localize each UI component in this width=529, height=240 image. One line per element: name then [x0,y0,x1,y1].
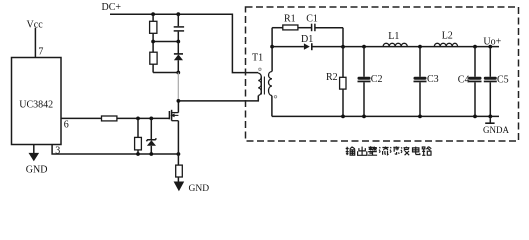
svg-text:Uo+: Uo+ [483,37,501,48]
node junction drain [177,99,181,103]
wire DC+ rail [110,14,258,72]
node junction gate wire at D3 [149,117,153,121]
transistor Q1 MOSFET [169,101,178,154]
wire RC branch right drop [342,28,344,47]
node junction ground rail at R2 [341,115,345,119]
capacitor C5 [484,47,497,117]
svg-text:C3: C3 [427,74,439,85]
transformer T1 secondary winding [269,72,272,96]
svg-text:C2: C2 [371,74,383,85]
svg-text:GND: GND [189,184,210,192]
node junction gate wire at R4 [136,117,140,121]
capacitor C6 (clamp) [174,14,184,41]
transformer T1 primary winding [258,73,261,95]
node junction bottom wire at source [177,152,181,156]
svg-text:D1: D1 [301,34,313,45]
ground (IC GND) [26,145,48,176]
transformer T1 core [260,77,262,95]
svg-text:6: 6 [64,119,69,130]
node junction ground rail at C4 [473,115,477,119]
svg-text:R2: R2 [326,72,338,83]
transformer T1 primary polarity dot [259,68,261,70]
svg-text:R1: R1 [284,14,296,25]
node junction clamp link right [176,40,180,44]
wire pin 6 to gate resistor [61,117,102,119]
node junction on DC+ rail (clamp R column) [151,12,155,16]
svg-text:GND: GND [26,165,48,176]
wire secondary top to D1 node [271,28,273,72]
dashed output box [246,7,519,141]
capacitor C2 [358,47,371,117]
wire drain rail to primary [178,96,258,101]
capacitor C4 [469,47,482,117]
svg-text:7: 7 [38,46,43,57]
diode D3 (gate zener) [146,118,156,154]
ground (source GND) [174,182,210,194]
svg-text:L2: L2 [442,30,453,41]
svg-text:T1: T1 [252,52,263,63]
svg-text:L1: L1 [388,31,399,42]
node junction ground rail at C5 [488,115,492,119]
wire secondary bottom to ground rail [271,96,273,117]
wire clamp link upper [153,41,178,43]
wire pin 3 to source node [52,145,178,155]
node junction clamp link left [151,40,155,44]
svg-text:GNDA: GNDA [483,125,509,135]
wire Vcc to pin 7 [34,28,36,58]
svg-text:DC+: DC+ [102,2,122,13]
inductor L1 [383,43,407,46]
op-amp U1 UC3842 box [12,58,62,145]
wire gate resistor to MOSFET gate [117,117,169,119]
resistor R5 (clamp, upper) [150,14,157,52]
resistor R2 [340,47,346,117]
ground GNDA [483,116,509,135]
wire clamp link lower [153,72,178,74]
svg-text:C5: C5 [497,74,509,85]
resistor R7 (current sense) [176,154,183,182]
wire clamp to drain (grey) [177,73,179,101]
node junction bottom wire at R4 [136,152,140,156]
svg-text:UC3842: UC3842 [19,100,53,111]
node junction clamp link lower right [176,71,180,75]
node junction output rail at R2 [341,45,345,49]
node junction output rail at C5 [488,45,492,49]
node junction ground rail at C2 [362,115,366,119]
diode D2 (clamp) [174,42,183,73]
resistor R1 [272,25,298,30]
caption 输出整流滤波电路 (drawn strokes) [346,146,432,155]
resistor R6 (clamp, lower) [150,52,157,72]
transformer T1 secondary polarity dot [274,96,276,98]
capacitor C3 [414,47,427,117]
node junction on DC+ rail (clamp C column) [176,12,180,16]
diode D1 [272,43,499,50]
svg-text:C4: C4 [458,74,470,85]
node junction output rail at C3 [418,45,422,49]
inductor L2 [434,43,457,46]
node junction output rail at C4 [473,45,477,49]
node junction ground rail at C3 [418,115,422,119]
capacitor C1 [298,24,343,32]
wire output ground rail [272,115,499,117]
node junction bottom wire at D3 [149,152,153,156]
node junction secondary at D1 branch [270,45,274,49]
resistor R3 (gate series) [102,116,117,121]
resistor R4 (gate pulldown) [135,118,142,154]
svg-text:3: 3 [55,146,60,157]
node junction output rail at C2 [362,45,366,49]
svg-text:C1: C1 [306,14,318,25]
